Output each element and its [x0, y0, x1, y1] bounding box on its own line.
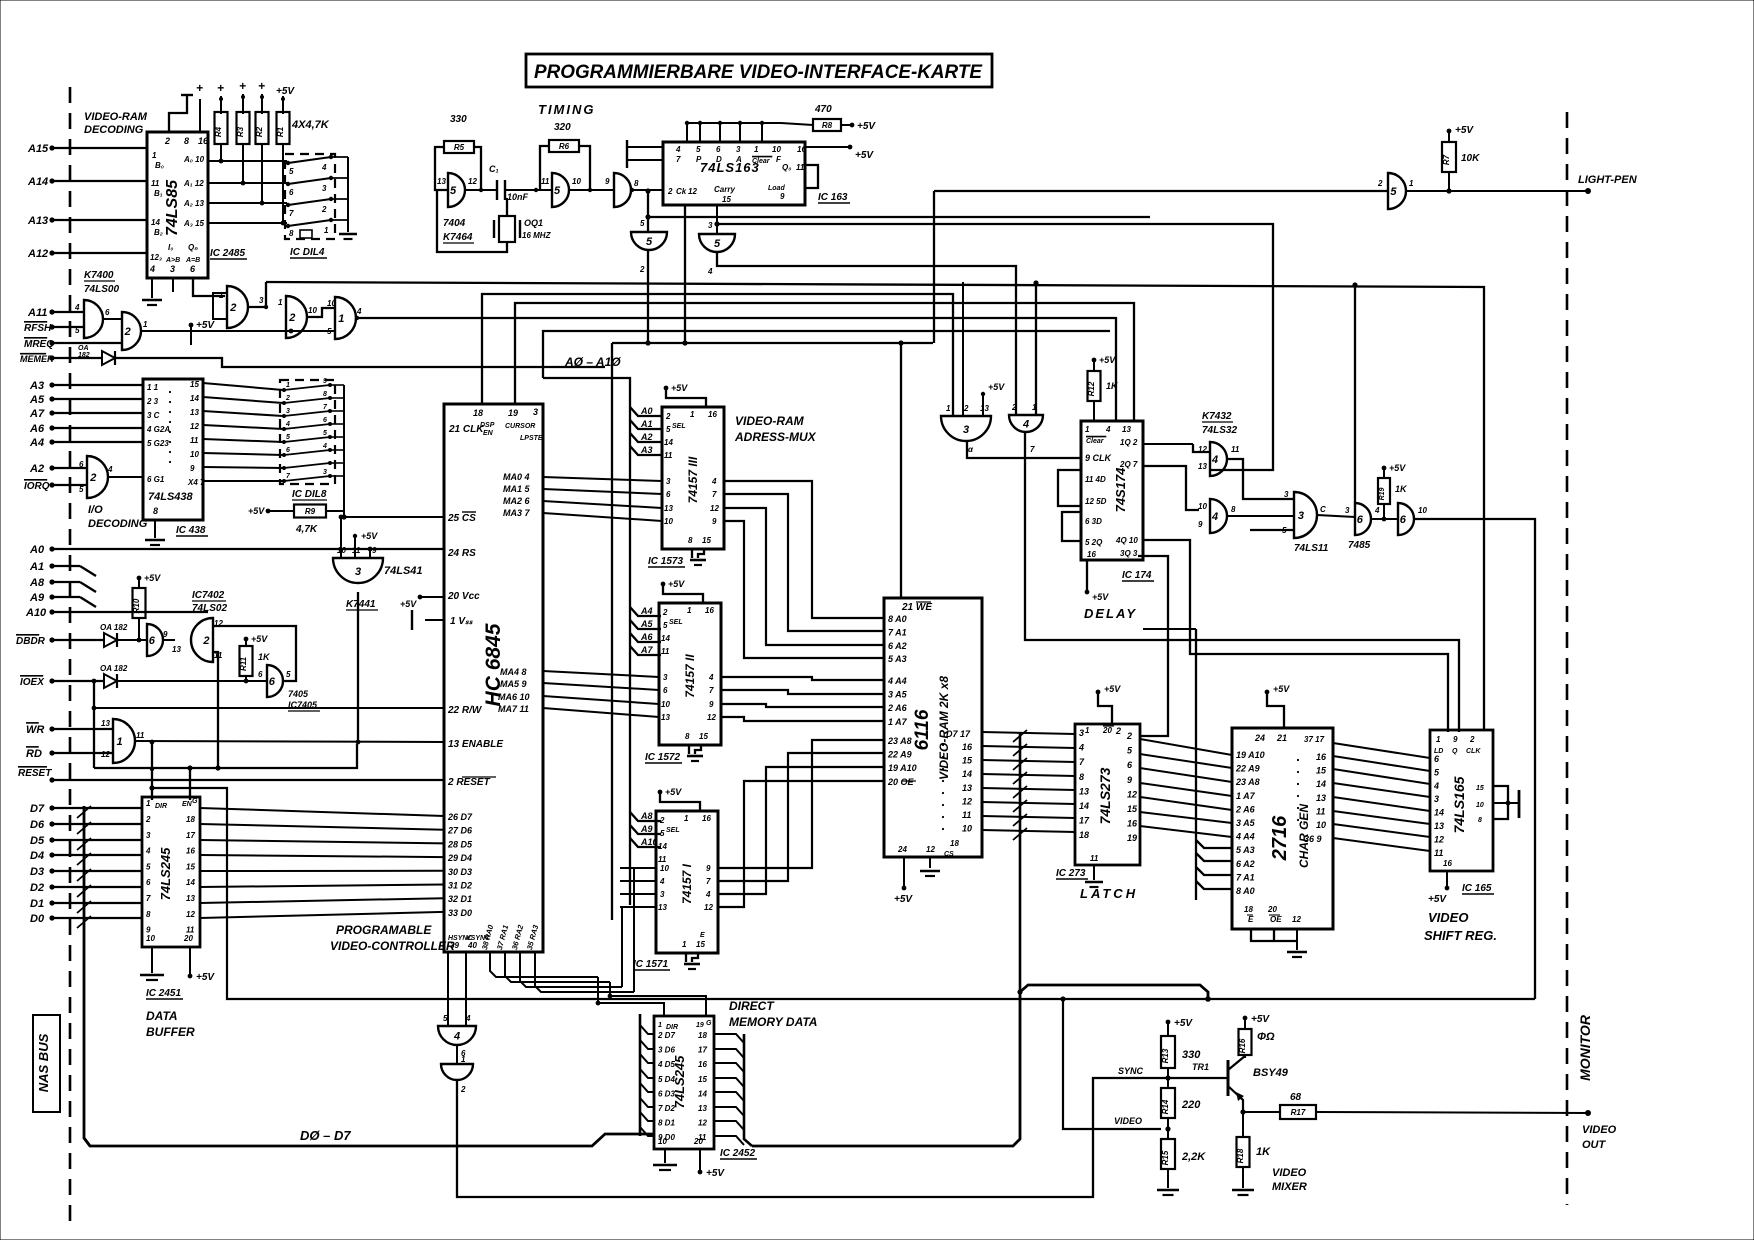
svg-text:ADRESS-MUX: ADRESS-MUX [734, 430, 817, 444]
svg-text:11: 11 [190, 436, 199, 445]
node A7 input [49, 410, 54, 415]
svg-text:DBDR: DBDR [16, 636, 46, 647]
wire U1b output line [141, 330, 335, 332]
svg-text:74LS438: 74LS438 [148, 491, 194, 503]
svg-text:5: 5 [640, 219, 645, 228]
svg-text:MEMER: MEMER [20, 354, 54, 364]
svg-text:+: + [239, 79, 246, 93]
svg-text:17: 17 [698, 1046, 707, 1055]
svg-text:13: 13 [962, 783, 972, 793]
wire NAS-bus boundary (left dashed line) [69, 87, 72, 1225]
svg-text:IC 1572: IC 1572 [645, 752, 680, 763]
svg-text:74LS85: 74LS85 [164, 179, 181, 236]
svg-text:7: 7 [1030, 445, 1035, 454]
svg-text:68: 68 [1290, 1092, 1302, 1103]
resistor R11 1K [240, 646, 253, 676]
svg-text:D3: D3 [30, 866, 44, 878]
gate U10 74LS41 3-input [333, 558, 383, 583]
svg-text:16: 16 [1127, 819, 1138, 829]
svg-text:DIR: DIR [666, 1024, 678, 1031]
svg-text:D0: D0 [30, 913, 45, 925]
wire U10 input3 from A0/RS line [369, 549, 371, 558]
svg-text:5: 5 [327, 327, 332, 336]
svg-text:4: 4 [1078, 743, 1084, 753]
wire video data line (shift out) long [152, 788, 1535, 999]
svg-text:7: 7 [1079, 757, 1085, 767]
svg-text:4: 4 [356, 307, 362, 316]
svg-text:7405: 7405 [288, 689, 309, 699]
svg-text:2: 2 [665, 412, 671, 421]
svg-text:+5V: +5V [248, 506, 265, 516]
svg-text:6: 6 [79, 460, 84, 469]
svg-text:Χ4 7: Χ4 7 [187, 478, 205, 487]
svg-text:AØ – A1Ø: AØ – A1Ø [564, 355, 621, 369]
svg-text:A0: A0 [29, 544, 45, 556]
svg-text:SEL: SEL [672, 423, 686, 430]
svg-text:10: 10 [660, 864, 669, 873]
svg-text:OA: OA [78, 345, 89, 352]
svg-text:MEMORY DATA: MEMORY DATA [729, 1015, 817, 1029]
svg-text:6: 6 [289, 188, 294, 197]
svg-text:A0: A0 [640, 406, 653, 416]
svg-text:11: 11 [661, 647, 670, 656]
wire C1 to U3b [505, 189, 552, 191]
svg-text:R5: R5 [454, 143, 465, 152]
svg-text:74157 III: 74157 III [686, 456, 700, 503]
svg-text:1: 1 [754, 145, 759, 154]
svg-text:6 A2: 6 A2 [888, 641, 907, 651]
svg-text:RD: RD [26, 748, 42, 760]
svg-text:B₁: B₁ [154, 189, 163, 198]
svg-text:38 RA0: 38 RA0 [480, 923, 495, 951]
IC mux 74157 I (IC 1571) [656, 811, 718, 953]
gate U12 OR [1009, 415, 1043, 432]
wire 6845 MA4-MA7 to mux II B inputs [543, 671, 659, 677]
wire carry line to shift register clock [716, 205, 718, 234]
wire dot-clock distribution line [645, 188, 650, 193]
wire char-row taps to 2716 A3-A0 [1196, 840, 1232, 848]
svg-text:6: 6 [146, 878, 151, 887]
node A13 input [49, 217, 54, 222]
svg-text:20 Vᴄᴄ: 20 Vᴄᴄ [447, 591, 480, 602]
svg-text:4: 4 [1105, 425, 1111, 434]
svg-text:4: 4 [711, 477, 717, 486]
svg-text:15: 15 [962, 756, 973, 766]
wire shift register serial strap [1493, 786, 1508, 819]
svg-text:33 D0: 33 D0 [448, 908, 472, 918]
svg-text:36 9: 36 9 [1304, 834, 1322, 844]
svg-text:18: 18 [698, 1031, 707, 1040]
wire U17 to U18 [456, 1045, 458, 1064]
svg-text:330: 330 [1182, 1049, 1201, 1061]
svg-text:12: 12 [468, 177, 477, 186]
wire 74LS85 pin6 to gate [193, 278, 225, 296]
svg-text:4X4,7K: 4X4,7K [291, 119, 330, 131]
svg-text:4 G2A: 4 G2A [146, 425, 170, 434]
svg-text:1 1: 1 1 [147, 383, 159, 392]
wire bus line y303 to delay [515, 303, 1134, 421]
svg-text:10: 10 [308, 306, 317, 315]
ground mux II [688, 745, 690, 754]
svg-text:36 RA2: 36 RA2 [510, 923, 525, 951]
svg-text:4: 4 [285, 421, 290, 428]
svg-text:16: 16 [702, 814, 711, 823]
svg-text:10: 10 [962, 824, 972, 834]
svg-text:14: 14 [190, 394, 199, 403]
svg-text:MONITOR: MONITOR [1577, 1014, 1593, 1081]
svg-text:14: 14 [1079, 801, 1089, 811]
resistor R18 1K [1237, 1137, 1250, 1167]
svg-text:9: 9 [163, 630, 168, 639]
svg-text:6 3D: 6 3D [1085, 517, 1102, 526]
gate U13b 74LS32 OR [1210, 499, 1227, 533]
svg-text:5 G23: 5 G23 [147, 439, 169, 448]
svg-text:MA0 4: MA0 4 [503, 472, 530, 482]
svg-text:SYNC: SYNC [1118, 1066, 1144, 1076]
node A5 input [49, 396, 54, 401]
svg-text:+5V: +5V [276, 86, 295, 97]
svg-text:D: D [716, 155, 722, 164]
svg-text:2: 2 [288, 312, 295, 324]
svg-text:2: 2 [1126, 731, 1132, 741]
svg-text:11: 11 [658, 855, 667, 864]
svg-text:+5V: +5V [1251, 1014, 1270, 1025]
svg-text:1: 1 [687, 606, 692, 615]
svg-text:1: 1 [1436, 735, 1441, 744]
wire 74LS85 pin2 pull-up [169, 96, 187, 132]
svg-text:+5V: +5V [706, 1168, 725, 1179]
node IORQ input [49, 482, 54, 487]
svg-text:1: 1 [682, 940, 687, 949]
wire RA0-RA3 from 6845 to mux I [490, 952, 598, 977]
svg-text:+: + [217, 81, 224, 95]
wire 6116 WE feed [900, 343, 902, 598]
svg-text:15: 15 [699, 732, 708, 741]
svg-text:14: 14 [151, 218, 160, 227]
svg-text:4: 4 [675, 145, 681, 154]
svg-text:8: 8 [1079, 772, 1084, 782]
svg-text:2: 2 [662, 608, 668, 617]
svg-text:2: 2 [460, 1085, 466, 1094]
wire 2716 +5V [1267, 694, 1284, 728]
resistor R10 1K [133, 588, 146, 618]
svg-text:13: 13 [661, 713, 670, 722]
svg-text:3: 3 [1079, 728, 1084, 738]
svg-text:4: 4 [322, 443, 327, 450]
svg-text:1K: 1K [1106, 381, 1119, 391]
wire U7b feedback to IOEX gate [213, 652, 218, 768]
svg-text:11: 11 [352, 546, 361, 555]
svg-text:4 A4: 4 A4 [887, 676, 907, 686]
node MREQ input [49, 340, 54, 345]
crystal OQ1 16MHz [499, 216, 515, 242]
wire delay Q3 to latch clock [1138, 556, 1168, 736]
svg-text:4: 4 [1211, 511, 1218, 523]
svg-text:6: 6 [666, 490, 671, 499]
svg-text:320: 320 [554, 122, 571, 133]
svg-text:3: 3 [323, 469, 327, 476]
wire 74LS85 pin3 stub [172, 278, 174, 292]
wire U10 input2 +5V [353, 534, 357, 538]
svg-text:12 5D: 12 5D [1085, 497, 1107, 506]
svg-text:8: 8 [146, 910, 151, 919]
svg-text:K7464: K7464 [443, 232, 473, 243]
svg-text:Clear: Clear [752, 158, 771, 165]
svg-text:A1: A1 [640, 419, 653, 429]
ground 6845 Vss [425, 619, 444, 621]
svg-text:11 4D: 11 4D [1085, 475, 1106, 484]
svg-text:E: E [1248, 915, 1254, 924]
svg-text:15: 15 [698, 1075, 707, 1084]
ground R15 [1167, 1169, 1169, 1188]
svg-text:NAS BUS: NAS BUS [36, 1033, 51, 1092]
svg-text:C: C [1320, 505, 1326, 514]
svg-text:6 G1: 6 G1 [147, 475, 165, 484]
svg-text:20: 20 [183, 934, 193, 943]
wire sync line to mixer [457, 1078, 1228, 1197]
node DBDIR input [49, 637, 54, 642]
gate U3a 7404 inverter [448, 173, 465, 207]
svg-text:12: 12 [710, 504, 719, 513]
wire 74LS438 outputs to DIL8 [203, 383, 283, 390]
svg-text:D1: D1 [30, 898, 44, 910]
svg-text:10: 10 [327, 299, 336, 308]
resistor R2 4.7k [256, 112, 269, 144]
svg-text:20: 20 [693, 1137, 703, 1146]
wire bus line y331 [543, 331, 1110, 378]
svg-text:1: 1 [1032, 403, 1037, 412]
resistor R14 220 [1161, 1088, 1175, 1118]
svg-text:15: 15 [1476, 785, 1484, 792]
svg-text:3: 3 [1434, 794, 1439, 804]
ground shift register strap [1508, 802, 1519, 804]
svg-text:2: 2 [164, 136, 170, 146]
wire shift reg pin16 +5V [1446, 871, 1448, 886]
svg-text:A6: A6 [29, 423, 45, 435]
node LIGHT-PEN terminal [1585, 188, 1591, 194]
svg-text:2 A6: 2 A6 [1235, 804, 1256, 814]
wire MONITOR boundary (right dashed line) [1566, 112, 1569, 1205]
svg-text:+5V: +5V [1273, 684, 1290, 694]
svg-text:16: 16 [1087, 550, 1096, 559]
wire R9/DIL8 to 6845 CS [326, 510, 344, 512]
svg-text:5 A3: 5 A3 [888, 654, 907, 664]
svg-text:4: 4 [321, 163, 327, 172]
svg-text:16: 16 [1316, 752, 1327, 762]
wire U2a out up to long line [248, 282, 266, 307]
svg-text:31 D2: 31 D2 [448, 881, 472, 891]
svg-text:16: 16 [198, 136, 209, 146]
svg-text:R18: R18 [1236, 1148, 1245, 1163]
svg-text:1K: 1K [1395, 484, 1408, 494]
svg-text:3: 3 [533, 407, 538, 417]
svg-text:1Q 2: 1Q 2 [1120, 438, 1138, 447]
svg-text:A5: A5 [640, 619, 653, 629]
svg-text:15: 15 [722, 195, 731, 204]
svg-text:I/O: I/O [88, 504, 103, 516]
wire bus line y343 [612, 342, 933, 344]
ground R18 [1242, 1167, 1244, 1188]
node A0 input and RS line [49, 546, 54, 551]
svg-text:16 MHZ: 16 MHZ [522, 231, 552, 240]
IC RAM 6116 VIDEO-RAM 2Kx8 [884, 598, 982, 857]
wire bus line y294 to 6845 CLK and U11 [482, 294, 953, 416]
node A10 input [49, 609, 54, 614]
svg-text:2: 2 [124, 326, 131, 338]
svg-text:+5V: +5V [1099, 355, 1116, 365]
svg-text:4: 4 [1211, 454, 1218, 466]
wire DIL4 common bus to ground [331, 156, 348, 158]
svg-text:4: 4 [708, 673, 714, 682]
svg-text:LIGHT-PEN: LIGHT-PEN [1578, 174, 1638, 186]
wire bus vertical x612 [611, 343, 613, 920]
wire U3a out to C1 [465, 189, 497, 191]
svg-text:22 A9: 22 A9 [887, 750, 912, 760]
svg-text:8: 8 [1478, 817, 1482, 824]
wire U13a out loop to U14 [1227, 459, 1294, 499]
svg-text:OUT: OUT [1582, 1139, 1607, 1151]
jumper block IC DIL4 [285, 154, 335, 239]
ground latch pin11 [1093, 865, 1095, 880]
svg-text:VIDEO: VIDEO [1272, 1167, 1307, 1179]
wire 74LS163 pin16 supply [805, 146, 850, 148]
wire 6116 pin24 +5V [903, 857, 905, 886]
svg-text:74LS41: 74LS41 [384, 565, 423, 577]
svg-text:IC DIL8: IC DIL8 [292, 489, 327, 500]
svg-text:12: 12 [1292, 915, 1301, 924]
svg-text:A4: A4 [29, 437, 44, 449]
wire buffer outputs to 6845 data pins [200, 808, 444, 816]
gate U13a 74LS32 OR [1210, 442, 1227, 476]
svg-text:LPSTB: LPSTB [520, 435, 543, 442]
wire char-row bus from delay [1195, 629, 1197, 900]
svg-text:VIDEO: VIDEO [1582, 1124, 1617, 1136]
svg-text:A₀ 10: A₀ 10 [183, 155, 205, 164]
svg-text:10: 10 [772, 145, 781, 154]
svg-text:MA1 5: MA1 5 [503, 484, 531, 494]
svg-text:21 WE: 21 WE [901, 602, 932, 613]
wire U7a to U7b [162, 639, 175, 641]
svg-text:Load: Load [768, 185, 785, 192]
svg-text:A11: A11 [27, 307, 47, 319]
wire memory-data bus taps (hatched) [1019, 732, 1022, 992]
svg-text:4: 4 [705, 890, 711, 899]
svg-text:7: 7 [706, 877, 711, 886]
IC data buffer 74LS245 (IC 2451) [142, 797, 200, 947]
svg-text:IC 163: IC 163 [818, 192, 848, 203]
node RD input [49, 750, 54, 755]
svg-text:21: 21 [1276, 733, 1287, 743]
svg-text:4: 4 [707, 267, 713, 276]
svg-text:13: 13 [101, 719, 110, 728]
wire U11 inputs [981, 392, 985, 396]
svg-text:+5V: +5V [671, 383, 688, 393]
svg-text:IC 165: IC 165 [1462, 883, 1492, 894]
svg-text:R16: R16 [1238, 1038, 1247, 1053]
svg-text:4Q 10: 4Q 10 [1115, 536, 1138, 545]
svg-text:G: G [706, 1020, 712, 1027]
gate U2b OR [286, 296, 307, 338]
svg-text:3: 3 [355, 566, 361, 578]
svg-text:30 D3: 30 D3 [448, 867, 472, 877]
svg-text:3: 3 [1298, 510, 1304, 522]
node A8 input [49, 579, 54, 584]
svg-text:6: 6 [269, 676, 276, 688]
resistor R19 1K [1378, 478, 1390, 504]
svg-text:A3: A3 [29, 380, 44, 392]
resistor R3 4.7k [237, 112, 250, 144]
svg-text:1: 1 [338, 313, 344, 325]
svg-text:+5V: +5V [1174, 1018, 1193, 1029]
svg-text:13: 13 [186, 894, 195, 903]
svg-text:2Q 7: 2Q 7 [1119, 460, 1138, 469]
svg-text:13: 13 [437, 177, 446, 186]
node A9 input [49, 594, 54, 599]
svg-text:5: 5 [554, 185, 561, 197]
svg-text:3: 3 [963, 424, 969, 436]
wire DIL8 common bus [330, 384, 344, 386]
gate U17 sync OR [438, 1026, 476, 1045]
svg-text:D5: D5 [30, 835, 45, 847]
svg-text:+: + [258, 79, 265, 93]
svg-text:IC 2485: IC 2485 [210, 248, 245, 259]
svg-text:MREQ: MREQ [24, 339, 54, 350]
svg-text:3: 3 [666, 477, 671, 486]
wire mux I +5V [658, 790, 663, 795]
svg-text:3: 3 [708, 221, 713, 230]
svg-text:6: 6 [1434, 754, 1440, 764]
svg-text:20 OE: 20 OE [887, 777, 915, 787]
svg-text:5: 5 [323, 430, 327, 437]
svg-text:R10: R10 [132, 598, 141, 613]
svg-text:4: 4 [107, 465, 113, 474]
svg-text:R6: R6 [559, 142, 570, 151]
svg-text:Q₀: Q₀ [782, 163, 791, 172]
svg-text:19: 19 [696, 1022, 704, 1029]
svg-text:5: 5 [666, 425, 671, 434]
svg-text:R9: R9 [305, 507, 316, 516]
svg-text:A6: A6 [640, 632, 653, 642]
svg-text:DECODING: DECODING [88, 518, 148, 530]
wire mux I outputs staircase to 6116 A8-A10/OE [718, 740, 884, 868]
svg-text:+5V: +5V [668, 579, 685, 589]
svg-text:P: P [696, 155, 702, 164]
svg-text:4,7K: 4,7K [295, 524, 318, 535]
wire U15 to U16 [1371, 518, 1398, 520]
wire U10 input1 from CS line [339, 515, 344, 520]
svg-text:+5V: +5V [665, 787, 682, 797]
svg-text:DSP: DSP [480, 422, 495, 429]
svg-text:11: 11 [1434, 848, 1443, 858]
wire HSYNC from 6845 [447, 952, 449, 1026]
svg-text:4: 4 [659, 877, 665, 886]
svg-text:15: 15 [702, 536, 711, 545]
svg-text:E: E [700, 932, 705, 939]
svg-text:11: 11 [664, 451, 673, 460]
svg-text:40: 40 [467, 941, 477, 950]
svg-text:28 D5: 28 D5 [447, 839, 473, 849]
svg-text:C₁: C₁ [489, 164, 499, 174]
jumper block IC DIL8 [280, 380, 335, 484]
svg-text:CURSOR: CURSOR [505, 423, 535, 430]
svg-text:A7: A7 [640, 645, 653, 655]
ground 74LS438 pin8 [154, 520, 156, 538]
svg-text:11: 11 [1316, 806, 1325, 816]
resistor R7 10K [1442, 142, 1456, 172]
wire light-pen output [1406, 190, 1588, 192]
svg-text:17: 17 [186, 831, 195, 840]
svg-text:13: 13 [1316, 793, 1326, 803]
